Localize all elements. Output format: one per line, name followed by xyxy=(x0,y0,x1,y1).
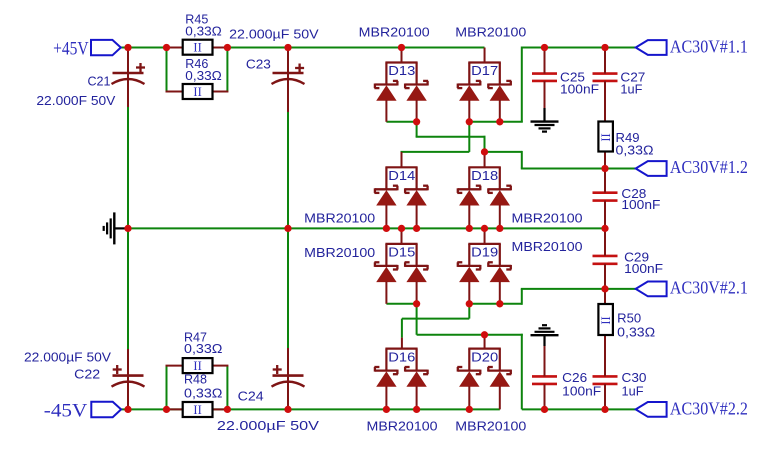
wire AC30V#1.2 right of D18 xyxy=(485,151,522,153)
wire -45V bottom rail xyxy=(121,408,500,410)
wire AC30V#1.2 from D13 down xyxy=(416,122,418,137)
supply flag -45V xyxy=(91,402,121,417)
wire AC30V#2.1 horizontal xyxy=(402,318,469,320)
wire C21-C22 column xyxy=(127,107,129,349)
wire 0V mid rail xyxy=(128,227,605,229)
wire +45V top rail xyxy=(121,47,485,49)
junction (128,409.4) xyxy=(124,406,131,413)
junction (416.6,121.8) xyxy=(413,118,420,125)
junction (401.5,228.4) xyxy=(398,225,405,232)
wire R47 bypass right xyxy=(226,366,228,410)
resistor R49 xyxy=(598,122,613,152)
junction (386.4,409.4) xyxy=(383,406,390,413)
resistor R46 xyxy=(183,84,213,99)
pin C27 top xyxy=(604,47,606,74)
junction (416.6,228.4) xyxy=(413,225,420,232)
capacitor C25 xyxy=(532,74,557,81)
capacitor C24 (polarized) xyxy=(272,365,305,387)
junction (605,288.9) xyxy=(601,285,608,292)
pin C28 bottom xyxy=(604,201,606,230)
pin R46 right xyxy=(213,91,229,93)
resistor R48 xyxy=(183,402,213,417)
svg-text:22.000µF 50V: 22.000µF 50V xyxy=(24,350,111,365)
junction (469.3,121.8) xyxy=(466,118,473,125)
junction (401.5,47.5) xyxy=(398,44,405,51)
pin C28 top xyxy=(604,168,606,193)
svg-text:-45V: -45V xyxy=(44,401,88,422)
capacitor C26 xyxy=(532,376,557,384)
junction (484.5,151.9) xyxy=(481,148,488,155)
junction (166.5,409.4) xyxy=(163,406,170,413)
junction (227.4,47.5) xyxy=(224,44,231,51)
junction (544.5,47.5) xyxy=(541,44,548,51)
svg-text:R48: R48 xyxy=(184,371,207,386)
svg-text:22.000µF 50V: 22.000µF 50V xyxy=(217,418,319,433)
pin R48 left xyxy=(166,408,183,410)
junction (544.5,409.4) xyxy=(541,406,548,413)
svg-text:MBR20100: MBR20100 xyxy=(304,245,375,260)
svg-text:D13: D13 xyxy=(388,63,415,78)
junction (416.6,303.8) xyxy=(413,300,420,307)
net flag AC30V#2.1 xyxy=(636,282,667,297)
svg-text:C24: C24 xyxy=(238,389,264,404)
svg-text:0,33Ω: 0,33Ω xyxy=(185,24,222,39)
svg-text:MBR20100: MBR20100 xyxy=(512,239,583,254)
wire AC30V#1.2 to D18 xyxy=(484,136,486,152)
wire R45 bypass left xyxy=(166,48,168,92)
pin R47 left xyxy=(166,365,183,367)
capacitor C29 xyxy=(593,256,618,264)
pin C26 bottom xyxy=(544,384,546,411)
svg-text:0,33Ω: 0,33Ω xyxy=(616,142,654,157)
svg-text:AC30V#2.1: AC30V#2.1 xyxy=(670,277,748,297)
svg-text:AC30V#1.2: AC30V#1.2 xyxy=(670,157,748,177)
ground (below C25) xyxy=(531,108,559,132)
svg-text:100nF: 100nF xyxy=(624,261,663,276)
pin C22 bottom xyxy=(127,349,129,410)
capacitor C28 xyxy=(593,193,618,201)
wire D19 anode bar xyxy=(469,303,500,305)
junction (288,409.4) xyxy=(284,406,291,413)
wire AC30V#1.1 from D17 down xyxy=(468,122,470,152)
supply flag +45V xyxy=(91,40,121,55)
dual schottky diode D17 xyxy=(457,48,511,122)
pin R48 right xyxy=(213,408,229,410)
pin C30 bottom xyxy=(604,384,606,411)
svg-text:D18: D18 xyxy=(471,168,498,183)
wire D17 anode bar xyxy=(469,121,500,123)
svg-text:D14: D14 xyxy=(388,168,415,183)
resistor R47 xyxy=(183,358,213,373)
wire AC30V#2.2 horizontal xyxy=(417,334,523,336)
capacitor C27 xyxy=(593,74,618,81)
junction (469.3,228.4) xyxy=(466,225,473,232)
junction (605,168.5) xyxy=(601,165,608,172)
junction (128,47.5) xyxy=(124,44,131,51)
wire D13 anode bar xyxy=(386,121,416,123)
wire AC30V#1.1 to D14 xyxy=(401,151,470,153)
wire AC30V#2.1 to D16 xyxy=(401,319,403,338)
wire AC30V#1.1 top segment xyxy=(522,47,636,49)
wire C23-C24 column xyxy=(287,112,289,348)
dual schottky diode D16 xyxy=(374,338,428,410)
svg-text:II: II xyxy=(193,41,201,55)
svg-text:AC30V#1.1: AC30V#1.1 xyxy=(670,36,748,56)
junction (386.4,228.4) xyxy=(383,225,390,232)
resistor R50 xyxy=(598,304,613,335)
svg-text:II: II xyxy=(193,403,201,417)
pin R45 right xyxy=(213,47,229,49)
junction (416.6,409.4) xyxy=(413,406,420,413)
junction (484.5,334.8) xyxy=(481,331,488,338)
junction (499.8,303.8) xyxy=(496,300,503,307)
wire AC30V#1.2 flag line xyxy=(521,168,636,170)
capacitor C21 (polarized) xyxy=(112,63,146,84)
svg-text:C23: C23 xyxy=(246,57,271,72)
capacitor C22 (polarized) xyxy=(112,365,145,387)
junction (469.3,303.8) xyxy=(466,300,473,307)
pin R50 top xyxy=(604,288,606,305)
dual schottky diode D14 xyxy=(374,152,428,229)
junction (288,228.4) xyxy=(284,225,291,232)
wire AC30V#2.1 vertical jog xyxy=(521,289,523,305)
pin C21 top xyxy=(127,47,129,108)
ground (0V rail, left) xyxy=(104,212,127,244)
pin R47 right xyxy=(213,365,229,367)
wire AC30V#2.1 from D19 down xyxy=(468,304,470,319)
dual schottky diode D18 xyxy=(457,152,511,229)
junction (469.3,409.4) xyxy=(466,406,473,413)
junction (605,409.4) xyxy=(601,406,608,413)
net flag AC30V#1.2 xyxy=(636,161,667,176)
capacitor C23 (polarized) xyxy=(272,64,305,85)
pin C25 top xyxy=(544,47,546,74)
junction (128,228.4) xyxy=(124,225,131,232)
svg-text:22.000µF 50V: 22.000µF 50V xyxy=(229,26,319,41)
junction (605,228.4) xyxy=(601,225,608,232)
wire AC30V#2.2 from D15 down xyxy=(416,304,418,335)
wire AC30V#2.1 from D19 right xyxy=(499,303,522,305)
svg-text:MBR20100: MBR20100 xyxy=(455,25,526,40)
dual schottky diode D20 xyxy=(457,335,511,410)
svg-text:D15: D15 xyxy=(388,244,415,259)
pin R49 bottom xyxy=(604,151,606,170)
ground (above C26, inverted) xyxy=(531,325,559,346)
junction (484.5,228.4) xyxy=(481,225,488,232)
svg-text:22.000F 50V: 22.000F 50V xyxy=(36,93,115,108)
dual schottky diode D15 xyxy=(374,228,428,303)
junction (227.4,409.4) xyxy=(224,406,231,413)
pin C23 top xyxy=(287,47,289,113)
wire AC30V#1.1 vertical jog xyxy=(521,47,523,122)
svg-text:C22: C22 xyxy=(74,367,100,382)
junction (605,47.5) xyxy=(601,44,608,51)
pin C24 bottom xyxy=(287,348,289,410)
wire R47 bypass left xyxy=(166,366,168,410)
svg-text:MBR20100: MBR20100 xyxy=(455,419,526,434)
junction (288,47.5) xyxy=(284,44,291,51)
svg-text:MBR20100: MBR20100 xyxy=(304,210,375,225)
svg-text:+45V: +45V xyxy=(53,38,89,59)
pin R45 left xyxy=(166,47,183,49)
svg-text:D19: D19 xyxy=(471,244,498,259)
pin R50 to C30 xyxy=(604,335,606,377)
svg-text:D16: D16 xyxy=(388,349,415,364)
wire R45 bypass right xyxy=(226,48,228,92)
capacitor C30 xyxy=(593,376,618,384)
pin R46 left xyxy=(166,91,183,93)
svg-text:D17: D17 xyxy=(471,63,498,78)
dual schottky diode D19 xyxy=(457,228,511,303)
wire AC30V#2.1 flag line xyxy=(521,288,636,290)
svg-text:C30: C30 xyxy=(622,370,647,385)
pin C29 bottom xyxy=(604,264,606,290)
svg-text:II: II xyxy=(599,133,613,141)
pin C26 top xyxy=(544,345,546,376)
junction (499.8,121.8) xyxy=(496,118,503,125)
svg-text:C21: C21 xyxy=(88,74,111,89)
net flag AC30V#2.2 xyxy=(636,402,667,417)
svg-text:MBR20100: MBR20100 xyxy=(359,25,430,40)
svg-text:MBR20100: MBR20100 xyxy=(512,211,583,226)
svg-text:1uF: 1uF xyxy=(620,82,642,97)
svg-text:100nF: 100nF xyxy=(562,384,601,399)
dual schottky diode D13 xyxy=(374,48,428,122)
svg-text:100nF: 100nF xyxy=(621,197,660,212)
svg-text:1uF: 1uF xyxy=(622,384,644,399)
svg-text:II: II xyxy=(599,316,613,324)
pin C27 to R49 xyxy=(604,81,606,122)
wire AC30V#1.2 horizontal xyxy=(416,136,486,138)
net flag AC30V#1.1 xyxy=(636,40,667,55)
svg-text:0,33Ω: 0,33Ω xyxy=(184,385,223,400)
svg-text:0,33Ω: 0,33Ω xyxy=(617,325,655,340)
pin C29 top xyxy=(604,227,606,256)
wire AC30V#2.2 bottom segment xyxy=(522,408,636,410)
svg-text:D20: D20 xyxy=(471,349,498,364)
wire AC30V#1.1 to D17 anodes xyxy=(499,121,523,123)
svg-text:C26: C26 xyxy=(562,370,587,385)
wire AC30V#1.2 vertical jog xyxy=(521,151,523,169)
wire D15 anode bar xyxy=(386,303,416,305)
svg-text:0,33Ω: 0,33Ω xyxy=(185,68,222,83)
junction (499.8,228.4) xyxy=(496,225,503,232)
wire AC30V#2.2 vertical jog xyxy=(521,334,523,410)
svg-text:R50: R50 xyxy=(617,310,641,325)
svg-text:MBR20100: MBR20100 xyxy=(367,419,438,434)
svg-text:AC30V#2.2: AC30V#2.2 xyxy=(670,399,748,419)
svg-text:100nF: 100nF xyxy=(560,82,599,97)
pin C25 bottom xyxy=(544,81,546,109)
junction (166.5,47.5) xyxy=(163,44,170,51)
resistor R45 xyxy=(183,40,213,55)
svg-text:0,33Ω: 0,33Ω xyxy=(184,341,223,356)
svg-text:II: II xyxy=(193,85,201,99)
